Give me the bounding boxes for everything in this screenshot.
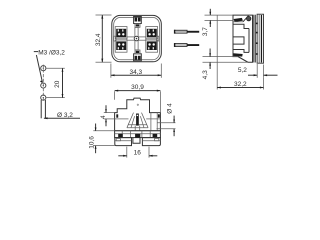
svg-text:16: 16 [134,150,142,157]
right side tab [156,36,158,41]
svg-text:34,3: 34,3 [129,69,142,76]
contact pocket bottom-right [146,40,158,52]
wire 1 lead [187,31,199,33]
mounting hole 2 [41,83,46,88]
side view top chamfer line [243,16,249,22]
dimension 20 extension lines [46,67,65,69]
dimension diameter 4 extension lines [158,122,176,124]
dimension diameter 3,2 leader [44,117,80,119]
svg-text:4,3: 4,3 [202,70,209,79]
side view bottom chamfer [238,57,248,63]
top view outer outline [112,15,162,61]
svg-text:30,9: 30,9 [131,84,144,91]
dimension 30,9 extension lines [114,91,116,100]
dimension 16 extension lines [126,147,128,158]
dimension 34,3 line and arrows [111,74,161,76]
front view pyramid [127,113,148,131]
mounting hole 1 [41,66,46,71]
front view base hatch right [153,134,158,138]
side view top latch [234,18,243,22]
mounting leader line [36,55,42,82]
svg-text:3,7: 3,7 [202,27,209,36]
dimension 5,2 extension lines [256,64,258,78]
svg-text:32,2: 32,2 [234,81,247,88]
svg-text:Ø 3,2: Ø 3,2 [57,112,73,119]
mounting slot [41,100,45,118]
side view body outline [233,15,253,62]
dimension 32,2 line and arrows [217,87,263,89]
front view outline [115,98,161,131]
contact pocket top-left [115,27,127,39]
front view left side hole [116,114,118,117]
dimension 4 left line and arrows [105,105,107,112]
contact pocket top-right [146,27,158,39]
dimension 10,6 extension lines [93,130,114,132]
front view center contact bar [136,114,139,126]
svg-text:32,4: 32,4 [95,33,102,46]
side view front plate [254,15,256,63]
dimension 34,3 extension lines [110,64,112,78]
top latch housing [134,17,142,28]
dimension 5,2 line and arrows [248,74,257,76]
svg-text:5,2: 5,2 [238,67,247,74]
dimension 3,7 line and arrows [209,9,211,15]
front view left foot [115,138,132,146]
svg-text:M3 /Ø3,2: M3 /Ø3,2 [38,49,65,56]
left side tab [114,36,116,41]
front view wing lines [115,113,161,131]
dimension 16 line and arrows [118,155,127,157]
dimension 32,2 extension lines [216,16,218,90]
dimension diameter 4 line and arrows [173,116,175,123]
svg-text:4: 4 [100,115,107,119]
front view right foot [142,138,160,146]
dimension 32,4 line and arrows [101,15,103,62]
dimension 3,7 extension lines [205,14,234,16]
contact pocket bottom-left [115,40,127,52]
svg-text:10,6: 10,6 [89,136,96,149]
mounting centerline [42,65,44,102]
wire 1 ferrule [174,30,187,34]
bottom latch housing [134,50,142,61]
dimension 4,3 line and arrows [209,49,211,57]
front view tower mark [137,104,138,105]
side view screw circle [247,16,251,20]
mounting leader tail [34,51,38,53]
dimension 4,3 extension lines [203,56,234,58]
front view right side hole [158,114,160,117]
side view flange plate [256,14,264,63]
dimension 4 left extension lines [104,112,115,114]
dimension 30,9 line and arrows [115,90,161,92]
front view base slab [115,131,161,138]
front view base hatch center [135,134,140,138]
side view cavity steps [233,24,249,52]
svg-text:Ø 4: Ø 4 [167,103,174,114]
svg-text:20: 20 [54,80,61,88]
dimension 10,6 line and arrows [95,124,97,131]
front view base hatch left [118,134,123,138]
side view bottom latch [233,53,242,56]
wire 2 lead [187,44,199,46]
wire 2 ferrule [174,43,187,47]
mounting hole 3 [41,95,46,100]
dimension 20 line and arrows [62,68,64,97]
dimension 32,4 extension lines [96,14,112,16]
top view inner outline [114,17,160,59]
front view center column [133,138,140,144]
center cross [127,27,146,50]
